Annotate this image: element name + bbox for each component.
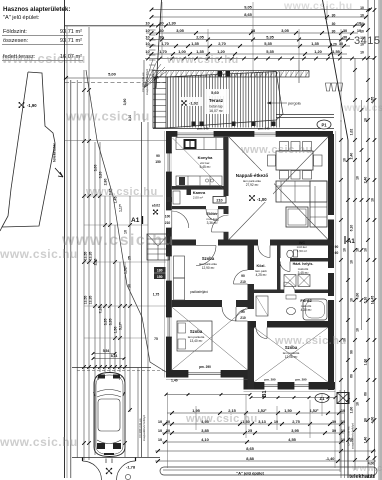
svg-text:1,02: 1,02	[350, 129, 354, 136]
entry door arc	[172, 211, 189, 228]
svg-text:10: 10	[343, 158, 347, 162]
svg-text:10: 10	[341, 419, 345, 424]
hazt door arc	[280, 262, 290, 272]
svg-text:összesen:: összesen:	[3, 38, 29, 44]
svg-text:1,75: 1,75	[153, 293, 160, 297]
svg-text:www.csic.hu: www.csic.hu	[185, 413, 258, 425]
svg-text:25: 25	[128, 256, 132, 260]
svg-text:10: 10	[356, 248, 360, 252]
retaining band above terrace	[153, 71, 309, 78]
svg-text:10: 10	[145, 34, 149, 39]
svg-text:4,55: 4,55	[288, 437, 296, 442]
svg-text:27,92 m²: 27,92 m²	[246, 183, 259, 187]
entrance steps ladder	[149, 29, 156, 31]
svg-text:30: 30	[166, 428, 170, 433]
driveway right edge	[137, 368, 139, 458]
pergola label	[267, 102, 287, 104]
svg-text:100: 100	[165, 215, 171, 219]
eloter-living door arc	[212, 215, 229, 232]
svg-text:9,05: 9,05	[244, 4, 252, 9]
terrain slope polygon	[0, 72, 55, 231]
bedroom1 door arc	[196, 246, 216, 266]
svg-text:2,70: 2,70	[218, 41, 226, 46]
garden stairs left of terrace	[153, 77, 166, 128]
entry door gap left wall	[166, 210, 172, 228]
svg-text:3,85: 3,85	[201, 428, 209, 433]
svg-text:2,75: 2,75	[292, 419, 300, 424]
bottom dim row6	[155, 456, 376, 463]
svg-text:Házt. helyis.: Házt. helyis.	[293, 262, 314, 266]
room label Kamra	[187, 189, 192, 195]
bedroom1 window left wall	[166, 256, 172, 281]
svg-text:Közl.: Közl.	[256, 264, 265, 268]
svg-text:60: 60	[350, 374, 354, 378]
svg-text:1,00: 1,00	[364, 359, 368, 366]
svg-text:90: 90	[241, 310, 245, 314]
svg-text:10: 10	[356, 328, 360, 332]
svg-text:10: 10	[360, 6, 364, 10]
svg-text:10: 10	[158, 428, 162, 433]
svg-text:3,05: 3,05	[281, 28, 289, 33]
svg-text:30: 30	[166, 419, 170, 424]
svg-text:30: 30	[343, 34, 347, 39]
horizontal connector y26	[65, 25, 156, 27]
svg-text:Z1: Z1	[320, 396, 326, 401]
svg-text:10: 10	[145, 49, 149, 54]
driveway lines	[72, 367, 151, 369]
top dim 8,65	[150, 12, 368, 19]
svg-text:10: 10	[343, 248, 347, 252]
svg-text:30: 30	[332, 30, 336, 34]
svg-text:www.csic.hu: www.csic.hu	[65, 109, 150, 124]
svg-text:Szoba: Szoba	[202, 256, 215, 261]
central spine wall	[248, 240, 255, 390]
svg-text:30: 30	[159, 34, 163, 39]
svg-text:www.csic.hu: www.csic.hu	[85, 186, 158, 198]
P1 marker	[317, 120, 331, 129]
svg-text:10: 10	[341, 437, 345, 442]
kamra door arc	[206, 209, 218, 221]
dining chairs	[280, 142, 289, 151]
svg-text:12,08 m²: 12,08 m²	[285, 355, 298, 359]
svg-text:150: 150	[157, 275, 163, 279]
left dimension cluster	[83, 70, 85, 460]
bottom dim row5	[155, 446, 376, 453]
svg-text:csapadékvíz lefolyó: csapadékvíz lefolyó	[351, 423, 355, 450]
car gepkocsi top view	[94, 373, 126, 457]
svg-text:10: 10	[360, 30, 364, 34]
living room diagonals	[229, 137, 328, 240]
svg-text:8,14: 8,14	[111, 354, 118, 358]
svg-text:3,20: 3,20	[99, 172, 103, 179]
svg-text:±0,02: ±0,02	[152, 204, 160, 208]
svg-text:1,40: 1,40	[171, 379, 178, 383]
svg-text:13,55: 13,55	[84, 252, 88, 261]
svg-text:5,00: 5,00	[108, 72, 117, 77]
svg-text:30: 30	[332, 419, 336, 424]
svg-text:Nappali-étkező: Nappali-étkező	[236, 173, 269, 178]
svg-text:14,45: 14,45	[371, 296, 375, 305]
kitchen counter top	[176, 138, 224, 150]
dining table	[276, 151, 313, 170]
svg-text:www.csic.hu: www.csic.hu	[274, 335, 347, 347]
svg-text:10: 10	[364, 248, 368, 252]
svg-text:csapadékvíz lefolyó: csapadékvíz lefolyó	[145, 69, 149, 96]
svg-text:3,95: 3,95	[291, 428, 299, 433]
svg-text:1,70: 1,70	[159, 49, 167, 54]
entry porch canopy	[147, 234, 169, 260]
svg-text:8,65: 8,65	[246, 446, 254, 451]
svg-text:"A" jelű épület: "A" jelű épület	[236, 471, 264, 476]
bottom dim row2	[158, 419, 345, 426]
svg-text:-1,90: -1,90	[27, 103, 37, 108]
living window top wall	[254, 131, 276, 137]
svg-text:210: 210	[216, 199, 222, 203]
pergola posts along wall	[192, 122, 196, 127]
svg-text:5,54: 5,54	[103, 349, 110, 353]
svg-text:10: 10	[360, 43, 364, 47]
svg-text:www.csic.hu: www.csic.hu	[351, 463, 382, 473]
svg-text:-1,02: -1,02	[189, 101, 199, 106]
svg-text:-1,00: -1,00	[257, 197, 267, 202]
svg-text:pergola: pergola	[288, 102, 302, 106]
svg-text:1,50: 1,50	[284, 408, 292, 413]
svg-text:10: 10	[350, 260, 354, 264]
svg-text:Fürdő: Fürdő	[300, 298, 312, 303]
kitchen window top wall	[177, 131, 214, 137]
svg-text:telekhatár: telekhatár	[349, 474, 375, 480]
walkway line 2	[147, 122, 149, 457]
sofa L-shape	[276, 181, 327, 202]
svg-text:10: 10	[158, 437, 162, 442]
svg-text:5,17²: 5,17²	[119, 321, 123, 330]
svg-text:210: 210	[240, 316, 246, 320]
partition between left bedrooms	[172, 300, 248, 307]
svg-text:1,20: 1,20	[330, 43, 337, 47]
left path line 2	[76, 80, 78, 458]
svg-text:75: 75	[154, 337, 158, 341]
svg-text:210: 210	[165, 221, 171, 225]
svg-text:Hasznos alapterületek:: Hasznos alapterületek:	[3, 6, 70, 13]
steep boundary from top	[156, 0, 162, 88]
svg-text:www.csic.hu: www.csic.hu	[283, 0, 353, 12]
bedroom3 diagonals	[254, 328, 328, 383]
washing machines hazt	[284, 275, 296, 287]
bedroom3 window2 bottom wall	[294, 382, 309, 390]
furdo door arc	[284, 282, 295, 293]
dim 5,00	[66, 77, 159, 79]
right dim columns	[340, 120, 342, 478]
svg-text:3,35: 3,35	[104, 319, 108, 326]
partition kamra/eloter	[172, 206, 229, 209]
window chip labels 180/150	[154, 267, 166, 273]
dashed level line y82	[65, 82, 166, 84]
svg-text:1,50: 1,50	[114, 327, 118, 334]
svg-text:A1: A1	[347, 239, 355, 245]
plaster outer contour lines	[163, 131, 165, 378]
short dims 5,54 8,14	[93, 353, 115, 355]
svg-text:3,05: 3,05	[176, 28, 184, 33]
lamp trapezoids	[326, 83, 331, 91]
top dim row5	[145, 34, 354, 41]
svg-text:A1: A1	[131, 217, 140, 224]
svg-text:10: 10	[145, 41, 149, 46]
svg-text:3,45 m²: 3,45 m²	[298, 271, 309, 275]
svg-text:13,35: 13,35	[89, 296, 93, 305]
partition eloter/szoba + wc top	[172, 240, 333, 246]
svg-text:4,00: 4,00	[371, 417, 375, 424]
svg-text:8,88: 8,88	[246, 456, 254, 461]
bedroom2 diagonals	[172, 307, 248, 370]
bed bedroom2	[177, 321, 212, 351]
svg-text:60: 60	[335, 251, 339, 255]
svg-text:pm. 290: pm. 290	[295, 378, 307, 382]
building label bottom	[163, 469, 340, 471]
kitchen lower counter	[176, 176, 222, 186]
svg-text:1,30: 1,30	[168, 20, 176, 25]
svg-text:90: 90	[241, 274, 245, 278]
svg-text:10: 10	[350, 298, 354, 302]
svg-text:padlásfeljáró: padlásfeljáró	[190, 290, 208, 294]
svg-text:93,71 m²: 93,71 m²	[60, 29, 82, 35]
gate arcs	[83, 461, 102, 480]
bedroom2 partition door arc	[222, 307, 236, 321]
Z1 marker	[315, 394, 329, 403]
svg-text:150: 150	[155, 160, 161, 164]
svg-text:10: 10	[360, 22, 364, 26]
right plot boundary vertical	[347, 140, 349, 478]
svg-text:Kamra: Kamra	[193, 190, 206, 195]
svg-text:10: 10	[145, 28, 149, 33]
svg-text:90: 90	[364, 418, 368, 422]
svg-text:1,52²: 1,52²	[258, 408, 268, 413]
terrace label halo	[205, 89, 229, 114]
svg-text:8,65: 8,65	[244, 12, 252, 17]
svg-text:30: 30	[343, 28, 347, 33]
svg-text:www.csic.hu: www.csic.hu	[61, 232, 175, 249]
kamra shelf	[173, 191, 180, 204]
crossed box marker near Z1	[337, 393, 349, 404]
top dim row6	[145, 41, 350, 48]
svg-text:6,10: 6,10	[364, 297, 368, 304]
svg-text:30: 30	[332, 428, 336, 433]
svg-text:30: 30	[332, 14, 336, 18]
svg-text:10: 10	[360, 36, 364, 40]
svg-text:Földszint:: Földszint:	[3, 29, 27, 35]
kitchen ceiling diagonal	[173, 138, 224, 189]
svg-text:pm. 290: pm. 290	[199, 365, 211, 369]
partition wc/hazt	[277, 246, 281, 294]
svg-text:2,00 m²: 2,00 m²	[193, 196, 203, 200]
bedroom2 window left wall	[166, 317, 172, 337]
svg-text:7,10: 7,10	[99, 307, 103, 314]
svg-text:4,00: 4,00	[356, 293, 360, 300]
svg-text:60: 60	[364, 392, 368, 396]
fan of slope lines left of terrace	[144, 59, 153, 88]
svg-text:1,35: 1,35	[311, 41, 319, 46]
svg-text:3,90: 3,90	[123, 99, 127, 106]
svg-text:1,55: 1,55	[332, 49, 340, 54]
svg-text:"A" jelű épület:: "A" jelű épület:	[3, 15, 40, 21]
svg-text:Konyha: Konyha	[198, 155, 213, 160]
house exterior walls	[166, 131, 333, 137]
bottom dim row1	[167, 408, 345, 415]
svg-text:1,70: 1,70	[161, 41, 169, 46]
interior partition kitchen/living	[224, 137, 229, 246]
svg-text:www.csic.hu: www.csic.hu	[0, 247, 78, 261]
walkway line	[141, 122, 143, 457]
svg-text:1,40: 1,40	[364, 437, 368, 444]
shower corner kozl	[256, 296, 268, 316]
svg-text:10: 10	[158, 419, 162, 424]
svg-text:30: 30	[332, 22, 336, 26]
svg-text:-1,78: -1,78	[126, 465, 136, 470]
svg-text:13,35: 13,35	[89, 252, 93, 261]
svg-text:telekhatár: telekhatár	[52, 143, 57, 162]
svg-text:5,60: 5,60	[211, 90, 220, 95]
top dim row7	[145, 49, 347, 56]
svg-text:www.csic.hu: www.csic.hu	[240, 144, 313, 156]
svg-text:pm. 240: pm. 240	[197, 127, 209, 131]
svg-text:4,30 m²: 4,30 m²	[301, 308, 312, 312]
svg-text:www.csic.hu: www.csic.hu	[0, 435, 78, 449]
svg-text:beton lap: beton lap	[209, 105, 222, 109]
bedroom3 door arc	[256, 328, 267, 339]
svg-text:180: 180	[157, 269, 163, 273]
window dim line above bottom-right wall	[251, 397, 335, 399]
svg-text:2,40: 2,40	[364, 177, 368, 184]
svg-text:90: 90	[350, 350, 354, 354]
svg-text:1,20: 1,20	[314, 49, 322, 54]
partition kozl/furdo	[254, 290, 328, 294]
right wall small gaps	[328, 215, 334, 220]
svg-text:210: 210	[240, 280, 246, 284]
svg-text:2,40: 2,40	[350, 153, 354, 160]
top dim row4	[145, 28, 361, 35]
bottom capsule outline	[160, 467, 377, 475]
svg-text:2,80: 2,80	[104, 179, 108, 186]
svg-text:12,90 m²: 12,90 m²	[202, 266, 215, 270]
coffee table	[286, 207, 308, 227]
bottom dim row3	[158, 428, 345, 435]
bedroom3 window1 bottom wall	[264, 382, 278, 390]
svg-text:10: 10	[371, 198, 375, 202]
svg-text:www.csic.hu: www.csic.hu	[343, 103, 382, 114]
svg-text:10: 10	[364, 118, 368, 122]
svg-text:5,35: 5,35	[264, 41, 272, 46]
wardrobe bedroom1	[174, 256, 185, 278]
top dim overall 9,05	[150, 4, 372, 11]
svg-text:10: 10	[360, 14, 364, 18]
svg-text:2,05: 2,05	[196, 34, 204, 39]
top dim baseline row with many ticks	[145, 58, 375, 60]
svg-text:90: 90	[156, 154, 160, 158]
svg-text:5,35: 5,35	[266, 49, 274, 54]
svg-text:10: 10	[341, 428, 345, 433]
terrain slope diagonal	[86, 70, 166, 372]
svg-text:1,00: 1,00	[350, 407, 354, 414]
partition kamra top	[172, 186, 229, 190]
svg-text:6,10: 6,10	[350, 225, 354, 232]
witness verticals top	[161, 2, 163, 58]
svg-text:4,10: 4,10	[201, 437, 209, 442]
svg-text:-1,40: -1,40	[326, 456, 335, 461]
svg-text:5,35: 5,35	[266, 34, 274, 39]
svg-text:1,50 m²: 1,50 m²	[297, 249, 307, 253]
svg-text:3,13: 3,13	[258, 419, 266, 424]
svg-text:Szoba: Szoba	[190, 329, 203, 334]
svg-text:www.csic.hu: www.csic.hu	[1, 51, 86, 66]
svg-text:10: 10	[356, 402, 360, 406]
svg-text:13,55: 13,55	[84, 296, 88, 305]
svg-text:3,35: 3,35	[109, 319, 113, 326]
svg-text:www.csic.hu: www.csic.hu	[166, 54, 239, 66]
terrace hatched area	[168, 71, 280, 127]
left path line	[70, 80, 72, 478]
left plot boundary line telekhatar	[64, 0, 66, 478]
partition furdo/bedroom3 (thick)	[251, 321, 335, 328]
svg-text:Előtér: Előtér	[206, 211, 218, 216]
svg-text:P1: P1	[321, 123, 327, 128]
svg-text:10: 10	[145, 20, 149, 25]
svg-text:3415: 3415	[354, 35, 380, 47]
bedroom2 window bottom wall	[188, 370, 221, 378]
witness horizontals left	[65, 140, 167, 142]
svg-text:1,52²: 1,52²	[310, 408, 320, 413]
right plot boundary diagonal telekhatar	[323, 0, 349, 140]
svg-text:16,07 m²: 16,07 m²	[209, 109, 223, 113]
svg-text:Terasz: Terasz	[209, 98, 224, 103]
page edge shading	[378, 0, 382, 480]
svg-text:93,71 m²: 93,71 m²	[60, 38, 82, 44]
svg-text:90: 90	[335, 245, 339, 249]
svg-text:1,35: 1,35	[191, 41, 199, 46]
svg-text:10: 10	[274, 419, 278, 424]
svg-text:3,00: 3,00	[94, 165, 98, 172]
washbasin	[287, 308, 296, 315]
pergola beam line	[276, 114, 334, 116]
svg-text:3,36 m²: 3,36 m²	[207, 221, 218, 225]
svg-text:4,25 m²: 4,25 m²	[256, 273, 267, 277]
svg-text:csapadékvíz lefolyó: csapadékvíz lefolyó	[142, 415, 146, 442]
toilet WC	[287, 250, 293, 258]
svg-text:pm. 290: pm. 290	[264, 378, 276, 382]
wc door arc	[258, 246, 270, 258]
svg-text:10: 10	[360, 51, 364, 55]
svg-text:6,45 m²: 6,45 m²	[200, 165, 211, 169]
kitchen side window left wall	[166, 153, 172, 172]
svg-text:10: 10	[341, 408, 345, 413]
bedroom1 spine door arc	[234, 270, 248, 284]
svg-text:1,17²: 1,17²	[119, 203, 123, 212]
bedroom2 door arc	[236, 309, 248, 321]
svg-text:13,40 m²: 13,40 m²	[190, 339, 203, 343]
svg-text:10: 10	[356, 176, 360, 180]
bathtub	[303, 299, 327, 320]
bottom witness verticals	[167, 392, 169, 468]
svg-text:pm. 240: pm. 240	[258, 127, 270, 131]
bottom dim row4	[158, 437, 345, 444]
top dim row3	[65, 20, 365, 27]
